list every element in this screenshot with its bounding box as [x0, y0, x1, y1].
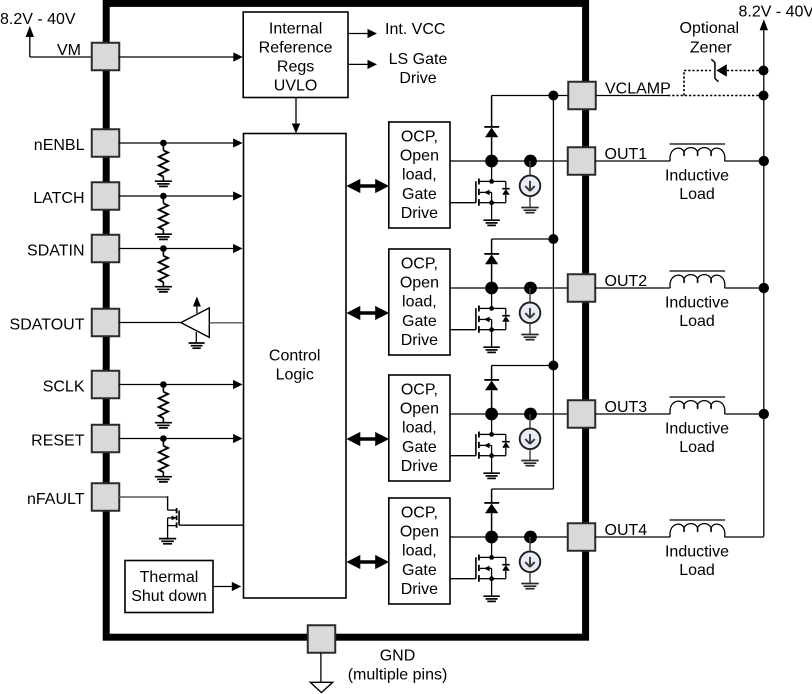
node VCLAMP internal rail junction — [548, 91, 558, 101]
wire VCLAMP rail vertical (to channel clamp diodes) — [552, 96, 554, 490]
svg-text:Load: Load — [679, 313, 715, 330]
svg-text:SDATIN: SDATIN — [27, 243, 84, 260]
wire inductor 1 to supply rail — [725, 160, 764, 162]
svg-text:load,: load, — [402, 294, 437, 311]
svg-text:OCP,: OCP, — [401, 382, 438, 399]
node OUT4 drain junction — [485, 531, 498, 544]
node junction on nENBL line — [160, 140, 167, 147]
pin nENBL — [92, 129, 120, 157]
pin SCLK — [92, 371, 120, 399]
svg-text:VCLAMP: VCLAMP — [605, 80, 671, 97]
pin RESET — [92, 425, 120, 453]
block OCP/Gate-Drive channel 3 — [389, 375, 450, 481]
svg-text:Gate: Gate — [402, 313, 437, 330]
svg-text:Zener: Zener — [690, 39, 732, 56]
wire OUT3 pin to inductive load — [595, 413, 670, 415]
supply rail arrow (up) — [760, 19, 768, 30]
wire clamp diode 2 to VCLAMP rail — [492, 238, 554, 240]
node OUT4 current-source junction — [524, 531, 537, 544]
svg-text:load,: load, — [402, 420, 437, 437]
node on supply rail at upper zener terminal — [759, 66, 769, 76]
block OCP/Gate-Drive channel 2 — [389, 249, 450, 355]
wire Q4 source to ground — [491, 579, 493, 596]
node on VCLAMP rail — [548, 361, 558, 371]
wire control logic to Q5 gate — [179, 524, 243, 526]
transistor Q4 (low-side output FET) — [450, 578, 476, 580]
svg-text:GND: GND — [380, 647, 416, 664]
wire OUT1 pin to inductive load — [595, 160, 670, 162]
svg-text:load,: load, — [402, 543, 437, 560]
body diode of Q2 — [492, 307, 506, 309]
svg-text:SDATOUT: SDATOUT — [10, 317, 85, 334]
wire SDATOUT to buffer output — [119, 322, 181, 324]
svg-text:nFAULT: nFAULT — [27, 491, 85, 508]
wire current source 1 to ground — [529, 196, 531, 207]
node OUT3 current-source junction — [524, 408, 537, 421]
bidirectional arrow control logic - channel 4 — [346, 555, 389, 569]
ground — [483, 595, 500, 597]
wire internal VCLAMP rail (horizontal) — [492, 95, 569, 97]
pin SDATIN — [92, 235, 120, 263]
node OUT2 drain junction — [485, 282, 498, 295]
bidirectional arrow control logic - channel 2 — [346, 306, 389, 320]
svg-text:OCP,: OCP, — [401, 256, 438, 273]
svg-text:Control: Control — [269, 348, 321, 365]
svg-text:Drive: Drive — [399, 70, 436, 87]
svg-text:Inductive: Inductive — [665, 168, 729, 185]
wire nENBL to control logic — [119, 142, 241, 144]
svg-text:OCP,: OCP, — [401, 129, 438, 146]
buffer supply arrow — [196, 306, 198, 313]
wire current source 2 to ground — [529, 323, 531, 334]
svg-text:Open: Open — [400, 275, 439, 292]
node supply rail at OUT1 load — [759, 156, 769, 166]
IC boundary (device outline) — [106, 3, 585, 637]
diode D2 (inductive clamp to VCLAMP) — [491, 239, 493, 254]
node OUT1 current-source junction — [524, 155, 537, 168]
zener diode D5 (optional) — [714, 63, 716, 79]
svg-text:RESET: RESET — [31, 433, 85, 450]
svg-text:Open: Open — [400, 148, 439, 165]
ground — [155, 233, 172, 235]
ground — [483, 346, 500, 348]
wire OUT4 pin to inductive load — [595, 536, 670, 538]
body diode of Q4 — [492, 556, 506, 558]
wire dotted zener branch (top) — [684, 70, 711, 72]
wire Q2 source to ground — [491, 330, 493, 347]
svg-text:Regs: Regs — [277, 59, 314, 76]
current source I4 (open-load detect) — [529, 537, 531, 552]
ground — [521, 207, 539, 209]
bidirectional arrow control logic - channel 3 — [346, 432, 389, 446]
wire SCLK to control logic — [119, 384, 241, 386]
wire RESET to control logic — [119, 438, 241, 440]
svg-text:Logic: Logic — [276, 367, 314, 384]
inductor L1 (inductive load) — [670, 148, 725, 161]
block U1: Internal Reference Regs UVLO — [243, 12, 348, 98]
node junction on SDATIN line — [160, 245, 167, 252]
node supply rail at OUT3 load — [759, 409, 769, 419]
node OUT3 drain junction — [485, 408, 498, 421]
node on VCLAMP rail — [548, 234, 558, 244]
wire buffer to ground — [195, 332, 197, 343]
ground — [155, 476, 172, 478]
svg-text:Load: Load — [679, 562, 715, 579]
pin OUT3 — [568, 400, 596, 428]
svg-text:(multiple pins): (multiple pins) — [348, 666, 448, 683]
node OUT2 current-source junction — [524, 282, 537, 295]
node supply rail at OUT2 load — [759, 283, 769, 293]
wire right supply rail — [763, 29, 765, 537]
pin GND — [308, 625, 336, 653]
ground — [155, 422, 172, 424]
wire OUT2 pin to inductive load — [595, 287, 670, 289]
diode D3 (inductive clamp to VCLAMP) — [491, 366, 493, 380]
svg-text:8.2V - 40V: 8.2V - 40V — [0, 11, 76, 28]
wire channel 3 output (OCP box to OUT3 pin) — [450, 413, 568, 415]
wire Q5 source to ground — [167, 526, 169, 539]
svg-text:Open: Open — [400, 524, 439, 541]
svg-text:Reference: Reference — [259, 40, 333, 57]
svg-text:UVLO: UVLO — [274, 78, 318, 95]
ground — [159, 538, 176, 540]
wire Q1 source to ground — [491, 203, 493, 220]
body diode of Q1 — [492, 180, 506, 182]
svg-text:8.2V - 40V: 8.2V - 40V — [739, 3, 812, 20]
svg-text:Gate: Gate — [402, 562, 437, 579]
pin SDATOUT — [92, 309, 120, 337]
ground — [155, 180, 172, 182]
svg-text:Inductive: Inductive — [665, 295, 729, 312]
pin nFAULT — [92, 483, 120, 511]
svg-text:OCP,: OCP, — [401, 505, 438, 522]
VM supply arrow (up) — [29, 36, 31, 57]
wire thermal shutdown to control logic — [213, 586, 232, 588]
current source I1 (open-load detect) — [529, 161, 531, 176]
wire Q3 source to ground — [491, 456, 493, 473]
node on supply rail at lower zener terminal — [759, 91, 769, 101]
pin OUT1 — [568, 147, 596, 175]
inductor L3 (inductive load) — [670, 401, 725, 414]
ground — [521, 583, 539, 585]
resistor pulldown on nENBL — [162, 146, 164, 150]
svg-text:LATCH: LATCH — [33, 190, 84, 207]
diode D1 (inductive clamp to VCLAMP) — [491, 96, 493, 127]
block U4: Thermal Shut down — [125, 561, 213, 613]
inductor L4 (inductive load) — [670, 524, 725, 537]
svg-text:Gate: Gate — [402, 439, 437, 456]
wire regs to control logic — [295, 98, 297, 124]
pin OUT2 — [568, 274, 596, 302]
ground — [483, 472, 500, 474]
transistor Q1 (low-side output FET) — [450, 202, 476, 204]
ground (open triangle) — [310, 682, 332, 692]
wire regs to Int. VCC — [348, 33, 368, 35]
wire SDATIN to control logic — [119, 248, 241, 250]
svg-text:Internal: Internal — [269, 20, 322, 37]
resistor pulldown on RESET — [162, 442, 164, 446]
wire supply to VM pin — [30, 56, 92, 58]
wire inductor 3 to supply rail — [725, 413, 764, 415]
node OUT1 drain junction — [485, 155, 498, 168]
diode D4 (inductive clamp to VCLAMP) — [491, 489, 493, 503]
wire current source 3 to ground — [529, 449, 531, 460]
ground — [521, 460, 539, 462]
resistor pulldown on LATCH — [162, 199, 164, 203]
wire control logic to buffer input — [209, 322, 243, 324]
svg-text:VM: VM — [57, 42, 81, 59]
svg-text:Open: Open — [400, 401, 439, 418]
wire clamp diode 4 to VCLAMP rail — [492, 488, 554, 490]
wire current source 4 to ground — [529, 572, 531, 583]
svg-text:Load: Load — [679, 439, 715, 456]
bidirectional arrow control logic - channel 1 — [346, 179, 389, 193]
block U2: Control Logic — [244, 134, 347, 599]
current source I2 (open-load detect) — [529, 288, 531, 303]
wire clamp diode 3 to VCLAMP rail — [492, 365, 554, 367]
wire VCLAMP pin to zener network — [596, 95, 668, 97]
current source I3 (open-load detect) — [529, 414, 531, 429]
ground — [521, 334, 539, 336]
svg-text:Int. VCC: Int. VCC — [385, 21, 445, 38]
node junction on RESET line — [160, 435, 167, 442]
svg-text:LS Gate: LS Gate — [389, 51, 448, 68]
svg-text:load,: load, — [402, 167, 437, 184]
svg-text:Optional: Optional — [680, 20, 740, 37]
pin LATCH — [92, 182, 120, 210]
svg-text:Drive: Drive — [401, 332, 438, 349]
buffer U3 (output driver, points left) — [181, 308, 209, 338]
inductor L2 (inductive load) — [670, 275, 725, 288]
svg-text:Load: Load — [679, 186, 715, 203]
body diode of Q3 — [492, 433, 506, 435]
wire inductor 4 to supply rail — [725, 536, 764, 538]
pin VM — [92, 43, 120, 71]
wire nFAULT to fault transistor drain — [119, 496, 168, 498]
ground — [155, 286, 172, 288]
pin OUT4 — [568, 523, 596, 551]
svg-text:Thermal: Thermal — [140, 569, 199, 586]
svg-text:nENBL: nENBL — [34, 137, 85, 154]
wire LATCH to control logic — [119, 195, 241, 197]
svg-text:Inductive: Inductive — [665, 421, 729, 438]
resistor pulldown on SDATIN — [162, 252, 164, 256]
transistor Q5 (open-drain fault output, gate at right) — [167, 496, 169, 510]
ground — [189, 342, 205, 344]
pin VCLAMP — [568, 82, 596, 110]
resistor pulldown on SCLK — [162, 388, 164, 392]
node junction on SCLK line — [160, 381, 167, 388]
svg-text:Shut down: Shut down — [131, 588, 207, 605]
transistor Q2 (low-side output FET) — [450, 329, 476, 331]
wire VM pin to internal regs block — [119, 56, 242, 58]
block OCP/Gate-Drive channel 4 — [389, 498, 450, 604]
ground — [483, 219, 500, 221]
transistor Q3 (low-side output FET) — [450, 455, 476, 457]
wire channel 2 output (OCP box to OUT2 pin) — [450, 287, 568, 289]
svg-text:Inductive: Inductive — [665, 544, 729, 561]
wire channel 4 output (OCP box to OUT4 pin) — [450, 536, 568, 538]
wire inductor 2 to supply rail — [725, 287, 764, 289]
wire dotted VCLAMP to supply rail — [668, 95, 764, 97]
wire dotted zener branch (left vertical) — [683, 71, 685, 96]
svg-text:Gate: Gate — [402, 186, 437, 203]
wire channel 1 output (OCP box to OUT1 pin) — [450, 160, 568, 162]
svg-text:Drive: Drive — [401, 205, 438, 222]
svg-text:Drive: Drive — [401, 581, 438, 598]
node junction on LATCH line — [160, 193, 167, 200]
block OCP/Gate-Drive channel 1 — [389, 122, 450, 228]
svg-text:SCLK: SCLK — [43, 379, 85, 396]
wire regs to LS Gate Drive — [348, 63, 368, 65]
svg-text:Drive: Drive — [401, 458, 438, 475]
wire GND pin down — [320, 653, 322, 683]
